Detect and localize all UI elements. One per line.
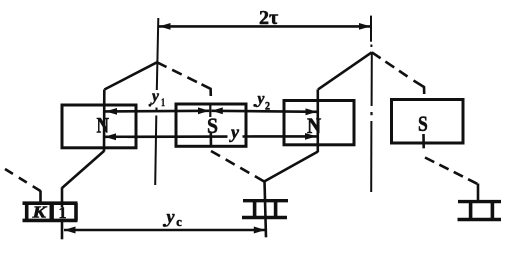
svg-text:S: S bbox=[418, 111, 428, 136]
arrowhead 2tau left bbox=[159, 23, 171, 30]
centerline right dash-dot part bbox=[370, 112, 372, 115]
centerline right (pole axis 2) tick bbox=[370, 16, 372, 42]
dimension y line left segment bbox=[105, 135, 228, 138]
segment post left bbox=[25, 203, 29, 221]
dashed lead from previous coil into segment K bbox=[5, 169, 41, 191]
coil side 4 (dashed, in pole S4) bbox=[414, 81, 425, 95]
arrowhead yc left bbox=[64, 227, 76, 234]
segment 2 post left bbox=[253, 201, 257, 218]
svg-text:N: N bbox=[97, 113, 110, 138]
svg-text:y: y bbox=[150, 88, 159, 105]
coil 1 roof dashed right leg bbox=[157, 62, 197, 82]
commutator segment 2 bottom bar bbox=[242, 216, 287, 219]
svg-text:y: y bbox=[165, 207, 176, 227]
arrowhead y right bbox=[305, 133, 317, 140]
coil 2 roof dashed right leg bbox=[372, 52, 408, 76]
segment 3 lead vertical bbox=[477, 184, 480, 202]
segment 2 post right bbox=[274, 201, 278, 218]
centerline left (pole axis 1) solid part bbox=[157, 18, 159, 90]
coil1 bottom lead: diagonal to commutator segment 1 bbox=[62, 151, 104, 188]
arrowhead y2 left bbox=[212, 107, 223, 114]
label y1 bbox=[149, 104, 152, 107]
dimension yc line bbox=[64, 229, 265, 232]
commutator segment 3 bottom bar bbox=[458, 218, 502, 221]
centerline right long segment bbox=[370, 121, 372, 192]
dimension y line right segment bbox=[243, 135, 317, 138]
svg-text:c: c bbox=[176, 215, 182, 229]
pole N3 rectangle bbox=[284, 101, 354, 145]
centerline right solid below apex bbox=[371, 52, 373, 106]
coil side 2 elbow dash bbox=[202, 84, 211, 96]
label yc bbox=[163, 224, 166, 227]
coil1 bottom lead vertical upper bbox=[61, 188, 64, 208]
coil1 bottom lead vertical lower (through to yc line) bbox=[61, 220, 64, 239]
commutator segment 2 top bar bbox=[243, 199, 288, 202]
arrowhead 2tau right bbox=[359, 23, 371, 30]
coil side 3 (solid, in pole N3) bbox=[316, 89, 319, 152]
commutator segment group 1 bottom bar bbox=[23, 219, 78, 223]
svg-text:2τ: 2τ bbox=[259, 7, 278, 29]
svg-text:y: y bbox=[256, 90, 265, 107]
segment 2 lead vertical bbox=[265, 181, 267, 237]
pole S4 rectangle bbox=[392, 100, 464, 144]
coil side 4 lower dash bbox=[422, 134, 425, 148]
svg-text:S: S bbox=[207, 113, 218, 138]
coil 1 end connection roof: solid left leg bbox=[104, 62, 157, 89]
coil side 1 (solid, in pole N1) bbox=[103, 90, 106, 152]
svg-text:2: 2 bbox=[265, 98, 270, 112]
commutator segment 3 top bar bbox=[458, 200, 501, 203]
coil side 2 (dashed, in pole S2) bbox=[210, 133, 213, 148]
dimension y1 line bbox=[106, 110, 210, 113]
dimension y2 line bbox=[212, 111, 318, 112]
svg-text:1: 1 bbox=[161, 97, 165, 109]
svg-text:K: K bbox=[31, 203, 47, 222]
centerline left long segment bbox=[155, 116, 156, 186]
stub into segment top bar bbox=[39, 191, 42, 205]
coil1 dashed end to segment 2 bbox=[211, 151, 264, 181]
coil2 dashed end lead below pole S4 bbox=[425, 158, 477, 184]
arrowhead y left bbox=[105, 133, 117, 140]
dimension 2tau line bbox=[159, 25, 371, 28]
coil2 solid end to segment 2 bbox=[264, 152, 318, 182]
centerline left dash-dot part bbox=[156, 108, 158, 111]
centerline right dot between tick and apex bbox=[370, 45, 372, 48]
commutator segment group 1 top bar bbox=[23, 201, 78, 205]
label y2 bbox=[253, 104, 256, 107]
segment post right bbox=[74, 203, 78, 221]
arrowhead y1 left bbox=[106, 108, 118, 115]
segment 3 post right bbox=[491, 202, 495, 220]
svg-text:1: 1 bbox=[59, 205, 67, 222]
pole N1 rectangle bbox=[62, 105, 136, 148]
arrowhead y2 right bbox=[306, 108, 318, 115]
segment post middle bbox=[50, 203, 54, 221]
coil side 2 short mark between arrowheads bbox=[209, 106, 211, 118]
segment 3 post left bbox=[469, 202, 473, 220]
pole S2 rectangle bbox=[176, 104, 246, 146]
arrowhead yc right bbox=[254, 227, 265, 234]
arrowhead y1 right bbox=[198, 107, 209, 114]
svg-text:y: y bbox=[229, 122, 240, 142]
coil 2 roof solid left leg bbox=[318, 52, 372, 89]
